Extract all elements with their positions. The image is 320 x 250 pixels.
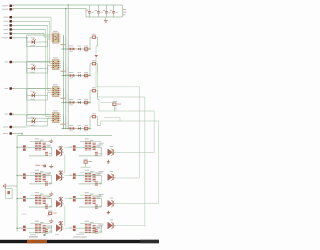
wire drop D (158, 121, 160, 204)
pin header pin IN8 (5, 87, 15, 89)
wire block C1 v (51, 199, 53, 204)
resistor RD13 (45, 230, 48, 233)
wire block B2 v3 (101, 178, 103, 184)
ground symbol A1 (49, 139, 53, 143)
wire block D1 top (30, 223, 51, 225)
capacitor C3 (103, 5, 111, 17)
label between C-D (22, 213, 27, 216)
wire rail left drop (85, 9, 87, 18)
optocoupler IC1 (53, 31, 60, 43)
wire ch4 drop1 (63, 115, 65, 129)
wire block D1 v3 (51, 225, 53, 233)
wire ch2 drop3 (67, 68, 69, 76)
wire block B2 top (80, 172, 101, 174)
wire block A2 v (101, 147, 103, 152)
terminal pins C1 (19, 196, 26, 202)
resistor QC2 stack (93, 197, 96, 203)
wire ch1 output vertical (95, 46, 97, 87)
wire ch3 comp in (90, 90, 92, 92)
wire ch3 loop top (27, 88, 51, 90)
wire block C1 top (30, 194, 51, 196)
wire ch1 loop top (27, 34, 51, 36)
IC2 pin stub (51, 65, 61, 67)
wire ch1 loop (27, 35, 51, 47)
wire block A1 out (62, 152, 64, 154)
connector X1 (6, 189, 13, 199)
label RB12 (40, 171, 44, 172)
wire block C2 v3 (101, 204, 103, 208)
wire input IN3 vertical (47, 25, 49, 90)
wire ch4 resistor row (61, 128, 90, 130)
wire cap bottom rail (86, 16, 122, 18)
diode D2b (78, 72, 82, 77)
IC3 pin stub (51, 88, 61, 90)
label RC11 (35, 192, 39, 193)
resistor RB11 (35, 173, 38, 181)
capacitor row B (43, 165, 46, 168)
diode DB1 (59, 170, 63, 174)
wire block C1 v3 (51, 204, 53, 208)
wire input IN1 elbow (50, 34, 52, 36)
IC3 pin stub (51, 90, 61, 92)
transistor driver QA2 (108, 146, 115, 156)
diode DC1 (59, 197, 63, 201)
label (123, 14, 126, 15)
wire ch1 resistor row (61, 48, 90, 50)
terminal pins A1 (19, 145, 26, 150)
wire input IN2 elbow (50, 63, 51, 65)
label RB13 (49, 183, 52, 184)
resistor RA13 (45, 152, 48, 155)
resistor R3a (69, 99, 74, 105)
jumper JP2 (113, 101, 122, 111)
capacitor C2 (95, 5, 103, 17)
wire VCC2 (12, 126, 26, 128)
wire stub 2 (104, 116, 120, 118)
label TC1 (46, 196, 51, 197)
label IC4 value (60, 124, 65, 125)
wire block A1 lower (29, 155, 52, 157)
pin header pin IN1 (4, 16, 15, 18)
transistor driver QC1 (56, 198, 63, 208)
resistor RC22 (88, 196, 91, 204)
pin header pin GND (2, 8, 14, 10)
wire drop A (139, 87, 141, 178)
wire block B1 v2 (45, 184, 47, 185)
wire ch1 up (89, 37, 91, 49)
wire block C2 main (76, 198, 102, 200)
wire block C1 lower (29, 206, 52, 208)
transistor driver QB2 (108, 171, 115, 181)
wire input IN6 long vertical (26, 38, 28, 118)
wire block A1 v (51, 147, 53, 152)
label RB21 (85, 170, 89, 171)
wire ch4 comp out (96, 116, 98, 118)
wire ch4 comp in (90, 116, 92, 118)
wire input IN1 horizontal (12, 16, 51, 18)
label RC12 (40, 194, 44, 195)
wire block A1 top (30, 140, 51, 142)
wire row C feed (17, 198, 23, 200)
label RD23 (99, 231, 102, 232)
wire link A-B (64, 155, 66, 174)
resistor QA1 stack (43, 143, 46, 149)
wire ch4 drop3 (67, 121, 69, 129)
label IC1 value (60, 44, 65, 45)
LED D1 (31, 37, 36, 46)
label RD12 (40, 222, 44, 223)
wire input IN4 elbow (46, 116, 51, 118)
resistor RC12 (38, 196, 41, 204)
wire row D link (65, 227, 73, 229)
pin header pin IN3 (4, 24, 15, 26)
ground symbol right A (107, 160, 110, 163)
label RB11 (35, 170, 39, 171)
label TA2 value (96, 146, 100, 147)
resistor RD23 (95, 230, 98, 233)
resistor RC11 (35, 196, 38, 204)
wire ch2 jog (97, 72, 99, 74)
wire ch4 output vertical (100, 121, 102, 126)
IC3 pin stub (51, 92, 61, 94)
wire input IN5 vertical (43, 34, 45, 37)
transistor driver QD2 (108, 219, 115, 229)
pin header pin IN5 (4, 32, 15, 34)
wire ch4 loop (27, 115, 51, 127)
wire ch2 up (89, 64, 91, 76)
wire stub 1 drop (115, 103, 117, 112)
wire input IN6 horizontal (12, 37, 27, 39)
diode D4b (78, 125, 82, 130)
wire ch4 jog (98, 125, 101, 127)
capacitor C1 (86, 5, 94, 17)
resistor R2a (69, 72, 74, 78)
IC4 pin stub (51, 118, 61, 120)
wire block D1 v (51, 225, 53, 228)
IC1 pin stub (51, 38, 61, 40)
resistor QD2 stack (93, 226, 96, 232)
diode DA1 (59, 146, 63, 150)
label RD22 (90, 222, 94, 223)
wire block C1 v2 (45, 207, 47, 208)
label IC2 value (60, 71, 65, 72)
label KC2 (99, 194, 104, 196)
label TC2 value (96, 198, 100, 199)
wire block A1 main (26, 146, 52, 148)
wire rail right drop (121, 5, 123, 17)
wire input IN4 vertical (45, 30, 47, 117)
wire ch3 LED row (27, 95, 48, 97)
wire block C2 lower (79, 206, 102, 208)
wire row B output (113, 177, 140, 179)
transistor driver QD1 (56, 222, 63, 232)
wire block B2 v (101, 176, 103, 179)
wire input IN4 horizontal (12, 29, 45, 31)
LED D4 (31, 117, 36, 126)
resistor R4b (84, 125, 88, 131)
resistor R3c (92, 87, 96, 92)
wire block D1 main (26, 227, 52, 229)
wire ch2 loop top (27, 61, 51, 63)
wire bottom rail (17, 135, 112, 137)
wire block B1 v (51, 176, 53, 179)
ground symbol C1 (49, 192, 53, 196)
wire ch3 loop (27, 89, 51, 101)
wire ch2 LED row (27, 68, 48, 70)
label TB1 (46, 173, 51, 174)
label RA22 (90, 140, 94, 141)
label TD1 value (46, 227, 50, 228)
wire ch1 drop3 (67, 41, 69, 49)
wire VCC bus vertical (67, 5, 69, 129)
wire block D2 v2 (95, 232, 97, 234)
diode D3b (78, 99, 82, 104)
wire ch3 drop2 (65, 91, 67, 103)
label TC1 value (46, 198, 50, 199)
IC4 pin stub (51, 120, 61, 122)
label RC23 (99, 206, 102, 207)
resistor RD22 (88, 224, 91, 232)
optocoupler IC2 (53, 57, 60, 69)
wire ch1 LED row (27, 41, 48, 43)
label C5 value (123, 9, 126, 10)
IC1 pin stub (51, 40, 61, 42)
resistor RB22 (88, 173, 91, 181)
resistor R2b (84, 72, 88, 78)
resistor RA23 (95, 152, 98, 155)
label RC21 (85, 192, 89, 193)
resistor RD11 (35, 224, 38, 232)
label RC13 (49, 206, 52, 207)
wire block D1 v2 (45, 232, 47, 234)
wire ch2 comp in (90, 63, 92, 65)
label RD21 (85, 221, 89, 222)
label IC3 value (60, 98, 65, 99)
wire block C2 top (80, 194, 101, 196)
label TD2 value (96, 227, 100, 228)
pin header pin IN7 (5, 61, 15, 63)
LED D2 (31, 64, 36, 73)
terminal pins D1 (19, 226, 26, 231)
wire row D feed (17, 227, 23, 229)
resistor R4a (69, 125, 74, 131)
resistor R1c (92, 34, 96, 39)
label RB23 (99, 183, 102, 184)
wire block C2 out (113, 203, 115, 205)
resistor RB12 (38, 173, 41, 181)
wire ch3 down (97, 91, 99, 100)
label RA13 (49, 153, 52, 154)
wire block A2 out (113, 151, 115, 153)
resistor RC21 (85, 196, 88, 204)
label KA2 (99, 143, 104, 145)
IC1 pin stub (51, 34, 61, 36)
wire junctions (16, 4, 91, 229)
capacitor C6 (47, 210, 57, 216)
label RA23 (99, 153, 102, 154)
wire stub 1 (101, 102, 117, 104)
wire block D2 v (101, 225, 103, 228)
terminal pins B2 (69, 173, 76, 179)
resistor RA22 (88, 142, 91, 150)
pin header pin IN4 (4, 28, 15, 30)
label RD13 (49, 231, 52, 232)
wire ch2 comp out (96, 63, 98, 65)
wire ch1 comp out (96, 36, 98, 38)
label C5 name (123, 12, 127, 13)
capacitor C4 (110, 5, 118, 17)
wire block D1 out (62, 227, 64, 229)
wire IN8 to IC3 (12, 88, 51, 90)
resistor R2c (92, 60, 96, 65)
wire ch2 drop2 (65, 64, 67, 76)
pin header pin GND2 (3, 132, 14, 134)
pin header pin IN2 (4, 20, 15, 22)
resistor RB13 (45, 182, 48, 185)
wire block B1 v3 (51, 178, 53, 184)
wire ch1 drop2 (65, 37, 67, 49)
terminal pins B1 (19, 173, 26, 179)
wire row C link (65, 198, 73, 200)
label under row D3 (76, 234, 84, 235)
wire block A2 v3 (101, 153, 103, 156)
wire ch3 drop1 (63, 89, 65, 103)
wire block D2 lower (79, 232, 102, 234)
label TB2 value (96, 175, 100, 176)
wire block A2 v2 (95, 154, 97, 157)
wire ch3 up (89, 91, 91, 103)
label RA12 (40, 140, 44, 141)
resistor RC23 (95, 205, 98, 208)
IC3 pin stub (51, 94, 61, 96)
label RA11 (35, 138, 39, 139)
pin header pin IN9 (5, 113, 15, 115)
label RA21 (85, 138, 89, 139)
resistor RD12 (38, 224, 41, 232)
wire ch4 drop2 (65, 117, 67, 129)
label TD2 (96, 226, 101, 227)
ground symbol D1 (49, 219, 53, 223)
wire block C1 main (26, 198, 52, 200)
label KB2 (99, 171, 104, 174)
transistor driver QA1 (56, 147, 63, 157)
optocoupler IC3 (53, 84, 60, 96)
wire ch3 resistor row (61, 102, 90, 104)
wire ch1 jog (96, 45, 98, 47)
IC4 pin stub (51, 116, 61, 118)
label TA2 (96, 145, 101, 146)
wire ch3 drop3 (67, 95, 69, 103)
wire ch2 output vertical (97, 73, 99, 98)
wire ch1 comp in (90, 36, 92, 38)
pin header pin VCC (2, 5, 14, 7)
wire input IN3 horizontal (12, 24, 47, 26)
wire ch4 up (89, 117, 91, 129)
status bar text (29, 234, 87, 238)
LED D3 (31, 91, 36, 100)
wire block D2 v3 (101, 225, 103, 233)
wire block A1 v3 (51, 153, 53, 156)
resistor R4c (92, 113, 96, 118)
label TB1 value (46, 175, 50, 176)
IC2 pin stub (51, 67, 61, 69)
diode D1b (78, 46, 82, 51)
label TC2 (96, 196, 101, 197)
resistor QA2 stack (93, 143, 96, 149)
wire block B2 main (76, 175, 102, 177)
wire block A2 lower (79, 155, 102, 157)
resistor R3b (84, 99, 88, 105)
wire input IN6 elbow (27, 117, 51, 119)
wire ch4 down (97, 117, 99, 126)
resistor QB1 stack (43, 175, 46, 181)
resistor RA11 (35, 142, 38, 150)
IC4 pin stub (51, 114, 61, 116)
wire block B2 lower (79, 183, 102, 185)
wire drop B (144, 97, 146, 227)
IC1 pin stub (51, 36, 61, 38)
wire input IN5 elbow (44, 36, 51, 38)
wire block B1 out (62, 176, 64, 178)
wire IN9 to IC4 (12, 114, 51, 116)
wire ch1 down (97, 37, 99, 46)
wire ch4 loop top (27, 114, 51, 116)
terminal pins A2 (69, 145, 76, 150)
resistor R1a (69, 46, 74, 52)
resistor R1b (84, 46, 88, 52)
wire input IN1 vertical (50, 17, 52, 35)
ground symbol right C (107, 211, 110, 214)
transistor driver QC2 (108, 198, 115, 208)
wire input IN3 elbow (48, 90, 51, 92)
wire block C2 v (101, 199, 103, 204)
wire row B feed (17, 175, 23, 177)
taskbar (0, 240, 159, 243)
wire input IN5 horizontal (12, 33, 44, 35)
wire left rail (16, 136, 18, 232)
diode D9 (81, 159, 92, 167)
wire bus vertical (63, 35, 65, 129)
resistor RC13 (45, 205, 48, 208)
wire ch2 drop1 (63, 62, 65, 76)
wire input IN2 vertical (49, 21, 51, 63)
resistor QD1 stack (43, 226, 46, 232)
wire ch1 collector (96, 86, 140, 88)
wire block C2 v2 (95, 207, 97, 208)
wire ch3 collector (99, 110, 154, 112)
label RC22 (90, 194, 94, 195)
wire GND top rail (12, 8, 86, 10)
wire row C output (113, 203, 159, 205)
pin header pin VCC2 (3, 126, 14, 128)
resistor RA21 (85, 142, 88, 150)
wire ch2 resistor row (61, 75, 90, 77)
resistor RB21 (85, 173, 88, 181)
wire row D output (113, 224, 145, 226)
label TA1 (46, 145, 51, 146)
wire row A feed (17, 146, 23, 148)
wire ch3 output vertical (98, 100, 100, 112)
wire ch1 drop1 (63, 35, 65, 49)
label under row D (30, 234, 36, 235)
pin header pin IN6 (2, 37, 15, 39)
wire block D1 lower (29, 232, 52, 234)
wire GND bus vertical (65, 9, 67, 130)
wire ch3 jog (98, 99, 99, 101)
wire block A1 v2 (45, 154, 47, 157)
wire ch4 LED row (27, 121, 48, 123)
wire block C1 out (62, 203, 64, 205)
